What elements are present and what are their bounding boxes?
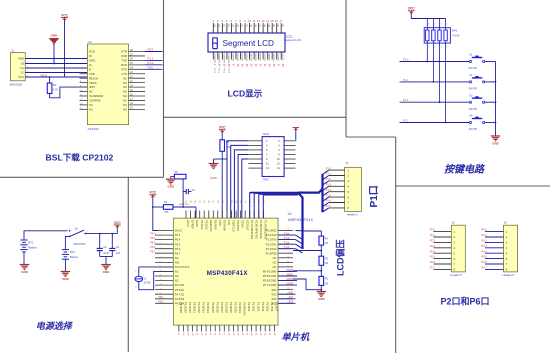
svg-text:P2.7: P2.7 (430, 266, 436, 270)
svg-text:1D: 1D (227, 24, 229, 27)
svg-text:Battery: Battery (29, 246, 38, 250)
svg-text:NC: NC (273, 265, 277, 269)
CP2102 left pin stubs (80, 72, 88, 110)
svg-text:1M: 1M (325, 262, 328, 265)
wire P6.5 to J6 (482, 255, 504, 259)
svg-text:12: 12 (257, 19, 261, 23)
svg-text:33: 33 (287, 229, 289, 231)
svg-text:COM2: COM2 (286, 278, 294, 281)
svg-text:4D: 4D (281, 24, 283, 27)
svg-text:RST: RST (148, 48, 154, 52)
power VCC (output) (114, 221, 121, 234)
svg-text:RST/NMI: RST/NMI (223, 220, 227, 231)
svg-text:REF/2.5V: REF/2.5V (209, 220, 213, 232)
LCD pin 34 (bottom) (245, 52, 248, 67)
capacitor C5 (183, 189, 195, 194)
svg-text:P1.4/SMCLK/TK: P1.4/SMCLK/TK (263, 220, 267, 239)
svg-text:2C: 2C (240, 24, 242, 27)
resistor R4 1M (319, 236, 329, 245)
wire RP1 output 1 down to key row (426, 43, 428, 62)
svg-text:13: 13 (160, 284, 162, 286)
LCD module LCD1 Segment LCD (208, 33, 301, 52)
svg-text:P6.7: P6.7 (150, 250, 156, 253)
net label P1.1 (UART) (145, 57, 163, 61)
svg-text:AVCC: AVCC (186, 220, 190, 227)
svg-text:NC: NC (175, 279, 179, 283)
wire crystal to XIN (139, 267, 174, 276)
svg-text:S5/P45: S5/P45 (254, 54, 256, 62)
svg-text:GND: GND (51, 34, 59, 38)
svg-text:P3.7/S22: P3.7/S22 (197, 302, 201, 313)
svg-text:P2.6/S31: P2.6/S31 (238, 302, 242, 313)
net label P1.1 (400, 78, 470, 82)
wire P2.7 to J5 (430, 266, 452, 270)
svg-text:P6.5: P6.5 (150, 241, 156, 244)
ground (LCD bias) (317, 292, 327, 302)
svg-text:VCC: VCC (61, 14, 68, 18)
svg-text:10uF: 10uF (103, 251, 109, 255)
svg-text:U1: U1 (288, 212, 292, 216)
wire RP1 output 4 down to key row (445, 43, 447, 123)
svg-text:DVREF: DVREF (191, 220, 195, 229)
svg-text:1: 1 (160, 229, 161, 231)
svg-text:P0.1: P0.1 (218, 69, 220, 74)
svg-text:SW PB: SW PB (469, 108, 477, 111)
svg-text:Header 8: Header 8 (347, 213, 359, 217)
svg-text:Battery: Battery (70, 255, 79, 259)
svg-text:P5.7/COM3: P5.7/COM3 (263, 283, 277, 287)
svg-text:JTAG: JTAG (262, 177, 269, 181)
LCD pin 8 (top) (239, 19, 242, 33)
power VCC (JTAG pin2) (293, 128, 299, 141)
svg-text:12: 12 (160, 279, 162, 281)
svg-text:P2.3/S2: P2.3/S2 (252, 302, 256, 312)
svg-text:VCC: VCC (219, 126, 226, 130)
svg-text:P4.7/S2: P4.7/S2 (175, 292, 185, 296)
svg-text:VDD: VDD (89, 72, 95, 76)
svg-text:40: 40 (287, 261, 289, 263)
svg-text:DCD: DCD (89, 50, 95, 54)
svg-text:S1/P41: S1/P41 (236, 54, 238, 62)
svg-text:P4.3/S18: P4.3/S18 (179, 302, 183, 313)
svg-text:TDI/TCLK: TDI/TCLK (232, 220, 236, 232)
svg-text:P0.2: P0.2 (222, 69, 224, 74)
wire switch to VCC (85, 233, 117, 235)
wire tap R13 (293, 265, 322, 276)
pushbutton S3 SW-PB (469, 94, 496, 110)
svg-text:6: 6 (160, 252, 161, 254)
LCD pin 38 (bottom) (227, 52, 230, 74)
wire P6.7 to J6 (482, 266, 504, 270)
wire caps to ground (100, 257, 113, 265)
svg-text:S0/P40: S0/P40 (231, 54, 233, 62)
svg-text:DSR: DSR (121, 54, 127, 58)
svg-text:46: 46 (287, 288, 289, 290)
svg-text:S3/P43: S3/P43 (245, 54, 247, 62)
region divider: right edge of BSL section (163, 0, 165, 177)
bus entries MCU right P1.0-P1.3 (278, 232, 303, 253)
svg-text:LCD偏压: LCD偏压 (335, 240, 346, 277)
region divider: bottom edge of LCD section (164, 116, 347, 118)
junction GND/ID (53, 58, 55, 60)
svg-text:D-: D- (21, 71, 24, 75)
svg-text:P2.2/S3: P2.2/S3 (256, 302, 260, 312)
LCD pin 33 (bottom) (249, 52, 252, 67)
svg-text:S4/P44: S4/P44 (249, 54, 251, 62)
LCD pin 16 (top) (275, 19, 279, 33)
svg-text:P1.6/CMPE/TA1: P1.6/CMPE/TA1 (254, 220, 258, 239)
svg-text:P2.3: P2.3 (430, 244, 436, 248)
svg-text:P2.0/S5: P2.0/S5 (265, 302, 269, 312)
svg-text:GND: GND (89, 59, 95, 63)
svg-text:VBUS: VBUS (40, 73, 47, 77)
svg-text:MINIUSB: MINIUSB (10, 82, 22, 86)
LCD pin 5 (top) (226, 19, 229, 33)
svg-text:U2: U2 (88, 40, 92, 44)
svg-text:P6.7: P6.7 (482, 266, 488, 270)
wire P1.4 to J3 (323, 189, 345, 196)
svg-text:P1.0: P1.0 (284, 232, 290, 235)
pushbutton S1 SW-PB (469, 54, 496, 70)
svg-text:RTS: RTS (121, 67, 127, 71)
svg-text:R23: R23 (272, 297, 277, 301)
svg-text:LCD显示: LCD显示 (228, 89, 263, 99)
svg-text:RI: RI (89, 54, 92, 58)
svg-text:SUSPND: SUSPND (89, 99, 101, 103)
svg-text:P1.3: P1.3 (403, 119, 409, 123)
ground (USB shell) (49, 34, 59, 64)
svg-text:S9/P51: S9/P51 (272, 54, 274, 62)
svg-text:TXD: TXD (121, 59, 127, 63)
net label TCK (145, 66, 163, 70)
svg-text:P2.1/S4: P2.1/S4 (261, 302, 265, 312)
wire P6.3 to J6 (482, 244, 504, 248)
svg-text:GND: GND (21, 270, 29, 274)
LCD pin 17 (top) (279, 19, 283, 33)
wire P2.3 to J5 (430, 244, 452, 248)
svg-text:DTR: DTR (121, 50, 127, 54)
svg-text:3: 3 (160, 238, 161, 240)
power VCC (JTAG pullup) (219, 126, 226, 140)
power VCC (keypad) (408, 7, 446, 19)
wire P6.0 to J6 (482, 228, 504, 232)
svg-text:P6.5: P6.5 (482, 255, 488, 259)
svg-text:Segment LCD: Segment LCD (284, 38, 301, 42)
svg-text:P6.6: P6.6 (150, 246, 156, 249)
svg-text:P6.4: P6.4 (482, 249, 488, 253)
connector J1 MINIUSB (10, 48, 29, 86)
svg-text:P6.0/A0: P6.0/A0 (213, 220, 217, 230)
svg-text:COM1: COM1 (286, 273, 294, 276)
JTAG left pin stubs (248, 141, 262, 168)
svg-text:COM3/P3: COM3/P3 (227, 54, 229, 64)
svg-text:J1: J1 (11, 48, 15, 52)
wire RP1 output 2 down to key row (433, 43, 435, 83)
wire key commons to ground (495, 62, 497, 137)
svg-text:TDO/TDI: TDO/TDI (236, 220, 240, 231)
connector JTAG header 7x2 (262, 132, 284, 181)
svg-text:XT2IN: XT2IN (241, 220, 245, 227)
svg-text:P1.7/S6: P1.7/S6 (270, 302, 274, 312)
svg-text:P1.3/TA2: P1.3/TA2 (266, 247, 277, 251)
svg-text:电源选择: 电源选择 (36, 321, 74, 331)
svg-text:DVCC: DVCC (175, 229, 182, 233)
svg-text:P2.0: P2.0 (430, 228, 436, 232)
svg-text:P1.0/TA0: P1.0/TA0 (266, 233, 277, 237)
net labels COM0-COM3 (278, 269, 297, 286)
svg-text:8: 8 (160, 261, 161, 263)
svg-text:P1.1: P1.1 (284, 237, 290, 240)
svg-text:P1.1/TA0: P1.1/TA0 (266, 238, 277, 242)
svg-text:J3: J3 (345, 161, 348, 165)
svg-text:NC: NC (175, 256, 179, 260)
svg-text:P6.6: P6.6 (482, 260, 488, 264)
wire J1 ID to CP2102 (25, 63, 87, 65)
wire crystal to XOUT (139, 271, 174, 289)
svg-text:13: 13 (261, 19, 265, 23)
net labels P6.3-P6.7 (MCU left) (150, 232, 156, 253)
svg-text:NC: NC (123, 94, 127, 98)
capacitor C3 10uF (97, 233, 110, 257)
svg-text:9: 9 (160, 265, 161, 267)
svg-text:5: 5 (160, 247, 161, 249)
svg-text:AVSS: AVSS (195, 220, 199, 227)
bus P1 (thick) (250, 174, 323, 249)
wire J1 D- to CP2102 (25, 72, 87, 74)
svg-text:C2: C2 (116, 245, 120, 249)
wire R33 to bias chain (296, 231, 322, 237)
capacitor C2 104 (109, 233, 120, 257)
svg-text:XIN: XIN (175, 260, 179, 264)
LCD pin 15 (top) (270, 19, 274, 33)
LCD pin 27 (bottom) (277, 52, 280, 67)
svg-text:CTS: CTS (121, 72, 127, 76)
LCD pin 10 (top) (248, 19, 253, 33)
svg-text:按键电路: 按键电路 (444, 164, 485, 176)
svg-text:P1.3: P1.3 (326, 184, 332, 187)
net labels P5.1 P5.0 (MCU lower left) (159, 296, 165, 304)
svg-text:GND: GND (318, 297, 326, 301)
svg-text:P5.1/S0: P5.1/S0 (175, 283, 185, 287)
svg-text:Segment LCD: Segment LCD (223, 39, 275, 48)
region divider: step between LCD and keypad sections (346, 136, 396, 138)
CP2102 right pin stubs (129, 49, 145, 110)
svg-text:BT1: BT1 (29, 241, 34, 245)
svg-text:SW-SPDT: SW-SPDT (74, 242, 86, 246)
wire P2.2 to J5 (430, 239, 452, 243)
wire P6.6 to J6 (482, 260, 504, 264)
ground (BT2) (61, 272, 71, 282)
pushbutton S2 SW-PB (469, 74, 496, 90)
svg-text:/SUSPEND: /SUSPEND (89, 94, 103, 98)
LCD pin 7 (top) (235, 19, 238, 33)
svg-text:P4.0/S21: P4.0/S21 (193, 302, 197, 313)
resistor pack RP1 4*10K (424, 19, 460, 49)
resistor R3 4.7k (47, 76, 87, 98)
IC U1 MSP430F41X (MCU) (173, 212, 313, 325)
ground (JTAG) (209, 159, 227, 180)
svg-text:P6.3: P6.3 (150, 232, 156, 235)
svg-text:COM0/P0: COM0/P0 (213, 54, 215, 64)
resistor R6 1M (319, 276, 329, 285)
LCD pin 30 (bottom) (263, 52, 266, 67)
svg-text:7: 7 (160, 256, 161, 258)
svg-text:2: 2 (160, 234, 161, 236)
wire P1.2 to J3 (323, 178, 345, 185)
svg-text:P4.2/S19: P4.2/S19 (183, 302, 187, 313)
battery BT1 (20, 231, 67, 265)
svg-text:VCC: VCC (149, 191, 156, 195)
svg-text:VBUS: VBUS (89, 81, 97, 85)
LCD pin 6 (top) (230, 19, 234, 33)
svg-text:4.7k: 4.7k (53, 88, 59, 92)
wire P2.6 to J5 (430, 260, 452, 264)
wires JTAG to MCU top pins (227, 141, 248, 218)
LCD pin 26 (bottom) (281, 52, 284, 67)
LCD pin 9 (top) (244, 19, 247, 33)
wire P6.1 to J6 (482, 233, 504, 237)
svg-text:P6.6: P6.6 (175, 247, 181, 251)
svg-text:4C: 4C (277, 24, 279, 27)
svg-text:14: 14 (277, 166, 280, 170)
svg-text:S5: S5 (75, 226, 79, 230)
svg-text:NC: NC (123, 99, 127, 103)
svg-text:P2.7/S30: P2.7/S30 (234, 302, 238, 313)
svg-text:P6.1/A1: P6.1/A1 (200, 220, 204, 230)
svg-text:GND: GND (103, 270, 111, 274)
svg-text:NC: NC (273, 260, 277, 264)
region divider: bottom edge of BSL section (0, 176, 164, 178)
svg-text:D+: D+ (21, 66, 25, 70)
svg-text:P5.1: P5.1 (159, 296, 165, 299)
svg-text:GND: GND (62, 277, 70, 281)
resistor R1 47k (reset pullup) (153, 201, 196, 218)
ground (BT1) (20, 265, 30, 275)
pushbutton S4 SW-PB (469, 115, 496, 131)
svg-text:VCC: VCC (18, 75, 24, 79)
svg-text:P2.5/ROSC: P2.5/ROSC (243, 302, 247, 316)
svg-text:S2/P42: S2/P42 (240, 54, 242, 62)
svg-text:P5.0: P5.0 (159, 301, 165, 304)
wire J1 VCC to CP2102 (25, 76, 87, 78)
LCD pin 1 (bottom) (213, 52, 216, 74)
wire tap R23 (293, 245, 322, 256)
svg-text:P5.5/COM1: P5.5/COM1 (263, 274, 277, 278)
svg-text:D-: D- (89, 67, 92, 71)
net label P1.0 (400, 58, 470, 62)
net label P1.3 (400, 119, 470, 123)
svg-text:XOUT/TCLK: XOUT/TCLK (175, 265, 190, 269)
resistor R2 (filter) (171, 171, 186, 207)
switch S5 SW-SPDT (67, 226, 89, 246)
wire P6.4 to J6 (482, 249, 504, 253)
svg-text:R13: R13 (272, 292, 277, 296)
svg-text:/RST: /RST (89, 85, 96, 89)
svg-text:COM1/P1: COM1/P1 (218, 54, 220, 64)
LCD pin 3 (top) (217, 19, 220, 33)
svg-text:P5.3/R33: P5.3/R33 (266, 251, 277, 255)
svg-text:15: 15 (270, 19, 274, 23)
svg-text:R23: R23 (289, 301, 294, 304)
svg-text:S7/P47: S7/P47 (263, 54, 265, 62)
svg-text:P3.1/S28: P3.1/S28 (224, 302, 228, 313)
svg-text:1M: 1M (325, 242, 328, 245)
wire P1.1 to J3 (323, 173, 345, 180)
LCD pin 40 (bottom) (218, 52, 221, 74)
svg-text:MSP430F41X: MSP430F41X (288, 217, 313, 222)
svg-text:ID: ID (21, 62, 24, 66)
svg-text:TCK: TCK (148, 66, 154, 70)
LCD pin 13 (top) (261, 19, 265, 33)
svg-text:1M: 1M (325, 282, 328, 285)
svg-text:P6.1: P6.1 (482, 233, 488, 237)
svg-text:P6.7: P6.7 (175, 251, 181, 255)
svg-text:P1.3: P1.3 (284, 246, 290, 249)
svg-text:LCD1: LCD1 (286, 35, 293, 39)
wire P1.6 to J3 (323, 200, 345, 207)
LCD pin 39 (bottom) (222, 52, 225, 74)
svg-text:P1.6: P1.6 (326, 200, 332, 203)
svg-text:NC: NC (89, 103, 93, 107)
wire P1.3 to J3 (323, 184, 345, 191)
MCU right pin stubs (278, 229, 293, 304)
LCD pin 31 (bottom) (259, 52, 262, 67)
svg-text:38: 38 (287, 252, 289, 254)
svg-text:RXD: RXD (121, 63, 127, 67)
svg-text:12: 12 (277, 162, 280, 166)
svg-text:NC: NC (123, 107, 127, 111)
svg-text:10: 10 (248, 19, 252, 23)
svg-text:16: 16 (275, 19, 279, 23)
svg-text:P3.2/S27: P3.2/S27 (220, 302, 224, 313)
connector J3 Header 8 (P1 port) (345, 161, 362, 216)
svg-text:11: 11 (160, 275, 162, 277)
net label P1.0 (UART) (145, 61, 163, 65)
svg-text:P2.1: P2.1 (430, 233, 436, 237)
svg-text:P1.1: P1.1 (326, 173, 332, 176)
svg-text:14: 14 (266, 19, 270, 23)
svg-text:NC: NC (123, 76, 127, 80)
svg-text:P1.1: P1.1 (148, 57, 154, 61)
ground (R2) (166, 179, 176, 189)
ground (caps) (101, 265, 111, 275)
svg-text:17: 17 (279, 19, 283, 23)
svg-text:P3.4/S25: P3.4/S25 (211, 302, 215, 313)
svg-text:NC: NC (175, 270, 179, 274)
svg-text:P1.0: P1.0 (148, 61, 154, 65)
svg-text:P2.6: P2.6 (430, 260, 436, 264)
svg-text:10: 10 (160, 270, 162, 272)
svg-text:P1.2/TA1: P1.2/TA1 (266, 242, 277, 246)
wire RP1 output 3 down to key row (439, 43, 441, 103)
svg-text:15: 15 (160, 293, 162, 295)
LCD pin 32 (bottom) (254, 52, 257, 67)
ground (keypad) (491, 136, 501, 146)
LCD pin 28 (bottom) (272, 52, 275, 67)
resistor R5 1M (319, 256, 329, 265)
crystal Y1 32768Hz (135, 271, 151, 289)
svg-text:GND: GND (210, 176, 216, 180)
svg-text:Header 8: Header 8 (450, 273, 462, 277)
LCD pin 37 (bottom) (231, 52, 234, 67)
wire P6.2 to J6 (482, 239, 504, 243)
svg-text:P6.4: P6.4 (150, 237, 156, 240)
svg-text:D+: D+ (89, 63, 93, 67)
svg-text:XT2OUT: XT2OUT (245, 220, 249, 231)
svg-text:GND: GND (167, 185, 175, 189)
wire P1.5 to J3 (323, 194, 345, 201)
svg-text:VCC: VCC (114, 221, 121, 225)
